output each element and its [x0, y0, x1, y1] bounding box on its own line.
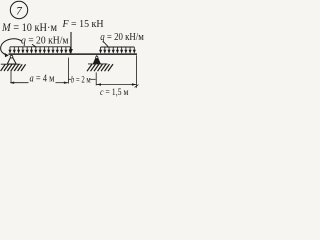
dimension c line with arrowheads: [97, 83, 137, 85]
extension line at right beam end: [135, 55, 137, 87]
oblique tick at right end of dimension c: [135, 85, 139, 88]
left pin support: [7, 55, 16, 64]
svg-text:М = 10 кН·м: М = 10 кН·м: [1, 21, 57, 34]
moment M arc arrow: [1, 39, 22, 57]
svg-text:q = 20 кН/м: q = 20 кН/м: [21, 36, 69, 47]
distributed load q1 (left span): [8, 47, 71, 54]
middle ground hatching: [87, 64, 113, 71]
leader line from right q label: [103, 41, 108, 47]
svg-text:q = 20 кН/м: q = 20 кН/м: [100, 32, 144, 43]
svg-text:a = 4 м: a = 4 м: [30, 74, 56, 85]
beam: [9, 53, 138, 55]
dimension b line stubs: [69, 78, 96, 80]
paper background: [0, 0, 150, 99]
svg-text:b = 2 м: b = 2 м: [71, 76, 91, 86]
leader line from left q label: [32, 44, 37, 47]
problem number circle 7: [10, 1, 27, 18]
extension line under F point: [67, 58, 69, 84]
extension line under middle support: [95, 72, 97, 85]
distributed load q2 (right span): [99, 47, 136, 54]
svg-text:F = 15 кН: F = 15 кН: [62, 18, 104, 30]
dimension a line with arrowheads: [10, 82, 68, 84]
force F arrow: [69, 32, 73, 54]
left ground hatching: [1, 64, 26, 71]
dimension a extension line (left, under support): [10, 71, 12, 83]
left ground line: [1, 63, 21, 65]
middle roller support: [93, 56, 100, 64]
middle ground line: [88, 63, 108, 65]
svg-text:c = 1,5 м: c = 1,5 м: [100, 87, 129, 98]
